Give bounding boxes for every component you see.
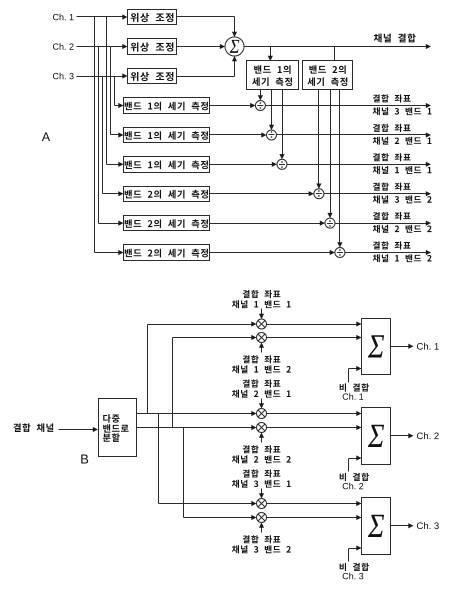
summer box 1 (sigma) [362,319,391,375]
label 결합 좌표 채널 2 밴드 1 [232,379,291,397]
multiplier circle 5 [257,499,267,509]
wire row4 to divider [210,103,256,108]
box split multiband (다중 밴드로 분할) [99,399,137,457]
wire row7 to divider [210,191,314,196]
wire band1 measure to divider 2 [269,90,274,131]
wire row8 to divider [210,221,326,226]
wire band1 measure to divider 3 [279,90,284,160]
wire band1 down to mult5 [159,414,257,507]
divider circle row8 [325,218,335,228]
label 결합 좌표 채널 1 밴드 1 [232,290,291,308]
box measure row9 (밴드 2의 세기 측정) [124,245,210,261]
wire row6 output [287,162,432,167]
wire mult6 to summer [267,515,362,520]
label 비 결합 Ch.3 [340,563,369,579]
bus Ch.3 to row7 [103,77,124,197]
label 결합 좌표 row8 [373,212,432,233]
wire non-combined Ch.3 input [349,545,362,561]
wire row5 output [277,132,432,137]
divider circle row9 [335,248,345,258]
multiplier circle 1 [257,319,267,329]
box phase-adjust 3 (위상 조정) [128,69,177,84]
divider circle row6 [277,159,287,169]
label Ch. 2 input [53,43,74,50]
wire band1 measure to divider 1 [258,90,263,101]
wire band1 to mult3 [137,411,257,416]
wire coord into mult5 top [259,489,264,499]
wire phase2 to summer left [177,44,226,49]
label 결합 채널 input [13,423,53,432]
divider circle row5 [267,130,277,140]
wire phase1 to summer top [177,17,238,38]
wire combined output [245,44,432,49]
divider circle row7 [314,189,324,199]
wire mult4 to summer [267,425,362,430]
bus Ch.2 to row5 [111,47,124,138]
label 결합 좌표 채널 3 밴드 2 [232,535,291,553]
summer box 3 (sigma) [362,498,391,555]
divider circle row4 [255,101,265,111]
label 비 결합 Ch.2 [340,473,369,489]
wire row6 to divider [210,162,278,167]
label 비 결합 Ch.1 [340,383,369,399]
label Ch. 3 output [417,522,439,529]
multiplier circle 6 [257,513,267,523]
wire band2 up to mult2 [173,335,257,428]
summer U1 (sigma circle) [225,37,244,56]
box band1 intensity measure (밴드 1의 세기 측정) [247,61,299,90]
wire Ch. 3 to phase box [77,73,128,78]
wire Ch. 1 to phase box [77,14,128,19]
multiplier circle 2 [257,333,267,343]
wire tap to band2 measure [334,47,336,61]
label Ch. 3 input [53,73,74,80]
bus Ch.1 to row6 [107,17,124,167]
label 결합 좌표 row5 [373,124,432,145]
box measure row7 (밴드 2의 세기 측정) [124,187,210,202]
label 결합 좌표 row6 [373,153,432,174]
wire row7 output [324,191,432,196]
wire band1 up to mult1 [148,321,257,413]
wire coord into mult6 bottom [259,523,264,533]
box measure row8 (밴드 2의 세기 측정) [124,216,210,231]
wire mult3 to summer [267,411,362,416]
label 결합 좌표 row4 [373,94,432,115]
bus Ch.3 to row4 [115,77,124,109]
wire summer output Ch.3 [391,523,414,528]
label 결합 좌표 채널 3 밴드 1 [232,469,291,487]
label 결합 좌표 채널 1 밴드 2 [232,355,291,373]
label 결합 좌표 row7 [373,183,432,204]
wire coord into mult2 bottom [259,343,264,353]
box measure row4 (밴드 1의 세기 측정) [124,98,210,114]
label Ch. 2 output [417,432,439,439]
wire band2 down to mult6 [184,428,257,521]
wire phase3 to summer bottom [177,56,238,77]
wire Ch. 2 to phase box [77,44,128,49]
wire coord into mult4 bottom [259,433,264,443]
label 결합 좌표 채널 2 밴드 2 [232,445,291,463]
label A [42,132,50,141]
wire input to split box [59,427,99,432]
wire row8 output [335,221,432,226]
wire tap to band1 measure [268,47,273,62]
wire mult1 to summer [267,321,362,326]
box measure row6 (밴드 1의 세기 측정) [124,157,210,173]
wire mult5 to summer [267,501,362,506]
wire summer output Ch.2 [391,433,414,438]
wire band2 to mult4 [137,425,257,430]
wire band2 measure to divider 5 [327,90,332,219]
box phase-adjust 1 (위상 조정) [128,10,177,25]
box measure row5 (밴드 1의 세기 측정) [124,128,210,143]
summer box 2 (sigma) [362,408,391,465]
wire non-combined Ch.1 input [349,366,362,383]
wire row4 output [266,103,432,108]
bus Ch.2 to row8 [99,47,124,226]
wire band2 measure to divider 4 [316,90,321,189]
wire band2 measure to divider 6 [337,90,342,248]
label 결합 좌표 row9 [373,241,432,262]
label Ch. 1 output [417,343,439,350]
wire row9 output [345,250,432,255]
wire row5 to divider [210,132,267,137]
label 채널 결합 output [374,33,416,42]
label Ch. 1 input [53,14,74,21]
box phase-adjust 2 (위상 조정) [128,39,177,55]
multiplier circle 4 [257,423,267,433]
wire non-combined Ch.2 input [349,455,362,471]
wire coord into mult3 top [259,399,264,409]
label B [81,455,88,464]
wire mult2 to summer [267,335,362,340]
wire summer output Ch.1 [391,344,414,349]
multiplier circle 3 [257,409,267,419]
box band2 intensity measure (밴드 2의 세기 측정) [303,61,353,90]
wire row9 to divider [210,250,335,255]
bus Ch.1 to row9 [95,17,124,256]
wire coord into mult1 top [259,309,264,320]
